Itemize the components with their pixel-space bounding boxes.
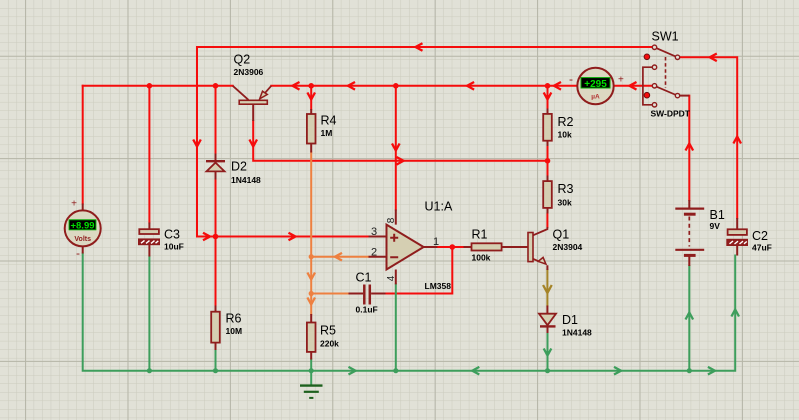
svg-text:Q1: Q1 [553,228,570,242]
wire D2 top branch [215,86,217,154]
node ground rail R5/ground junction [309,368,314,373]
wire green C3 bottom [148,257,150,371]
svg-text:47uF: 47uF [752,243,772,253]
wire net opamp+ horizontal to pin3 [197,236,369,238]
svg-text:10k: 10k [558,130,572,140]
svg-text:Volts: Volts [74,236,91,243]
node C1 left junction [309,291,314,296]
wire net opamp+ / SW1 pole1: vertical+top run [197,47,653,237]
svg-text:10uF: 10uF [164,242,184,252]
svg-text:+295: +295 [584,79,607,90]
transistor Q1 [528,227,583,270]
wire green B1 bottom [688,266,690,371]
node opamp noninverting input junction [213,234,219,240]
resistor R5 [307,314,339,360]
node ground rail C3 junction [147,368,152,373]
wire opamp output to R1 [437,246,463,248]
node R2/R3 divider junction [545,158,551,164]
svg-text:30k: 30k [558,198,572,208]
svg-text:B1: B1 [710,208,725,222]
svg-text:2: 2 [371,246,377,258]
current arrow olive [544,286,552,293]
svg-text:100k: 100k [472,253,491,263]
node R2 top junction [545,83,551,89]
wire opamp pin8 supply drop [395,86,397,210]
svg-text:0.1uF: 0.1uF [356,305,378,315]
node ground rail opamp V- junction [393,368,398,373]
svg-text:9V: 9V [710,221,721,231]
wire node to R3 top [547,161,549,176]
resistor R2 [543,109,573,147]
wire voltmeter drop [82,86,84,204]
wire supply row left segment [83,85,233,87]
svg-text:R3: R3 [558,182,574,196]
svg-text:-: - [76,246,80,260]
wire green ground rail [83,254,736,371]
node opamp V+ branch junction [393,83,399,89]
current arrows red [193,43,741,240]
svg-text:1N4148: 1N4148 [231,175,261,185]
svg-text:Q2: Q2 [234,53,251,67]
wire green D1 bottom [547,333,549,371]
resistor R1 [464,228,529,263]
wire Q2 base down and across to R2/R3 node [253,121,547,161]
svg-text:LM358: LM358 [425,281,452,291]
diode D2 [206,154,261,186]
svg-text:R6: R6 [226,312,242,326]
wire C3 drop [148,86,150,223]
svg-text:C3: C3 [164,228,180,242]
wire orange to opamp pin2 [311,256,368,258]
op-amp U1:A [369,200,453,292]
svg-text:R2: R2 [558,115,574,129]
wire R3 bottom to Q1 collector [546,214,548,228]
wire D2 bottom to node [215,180,217,237]
switch SW1 [643,30,691,119]
svg-text:4: 4 [386,275,397,281]
wire green R5 bottom + ground stub [310,360,312,385]
node ground rail D1 junction [545,368,550,373]
svg-text:1: 1 [433,236,439,248]
svg-text:µA: µA [591,94,600,101]
svg-text:1N4148: 1N4148 [562,328,592,338]
node ground rail B1 junction [687,368,692,373]
svg-text:R1: R1 [472,228,488,242]
svg-text:R4: R4 [321,114,337,128]
svg-text:D2: D2 [231,160,247,174]
wire supply row right segment [271,85,577,87]
node C3 top junction [147,83,153,89]
wire R2 bottom to node [547,146,549,161]
svg-text:R5: R5 [320,324,336,338]
svg-text:SW1: SW1 [652,30,679,44]
svg-text:+: + [618,75,624,86]
svg-text:-: - [569,72,573,86]
voltmeter body [65,199,101,261]
svg-text:+8.99: +8.99 [70,221,94,232]
wire node to R6 [215,237,217,306]
svg-text:10M: 10M [226,326,243,336]
capacitor C2 [727,218,772,256]
transistor Q2 [233,53,272,122]
current arrows orange [307,253,342,305]
wire green opamp pin4 down [395,284,397,370]
wire R4 top lead [310,86,312,109]
svg-text:C1: C1 [356,271,372,285]
wire feedback output down and left to C1 [386,247,453,294]
svg-text:2N3906: 2N3906 [234,67,264,77]
capacitor C1 [349,271,386,315]
resistor R6 [211,306,242,351]
wire SW1 throw1 to C2 column [680,57,738,218]
svg-text:+: + [71,199,77,210]
capacitor C3 [139,223,184,257]
ammeter [569,68,624,104]
svg-text:D1: D1 [562,313,578,327]
wire green R6 bottom [215,350,217,371]
wire R2 top lead [547,86,549,109]
node opamp inverting input junction [309,254,314,259]
current arrows green [349,310,740,375]
node D2 cathode junction [213,83,219,89]
svg-text:C2: C2 [752,229,768,243]
wire meter to SW1 pole2 [614,85,652,87]
svg-text:2N3904: 2N3904 [553,242,583,252]
svg-text:3: 3 [371,226,377,238]
wire orange R4 bottom to R5 column [310,153,312,315]
wire SW1 throw2 to B1 column [688,96,690,200]
resistor R3 [543,176,573,214]
wire orange to C1 left [311,293,348,295]
node opamp output junction [450,244,456,250]
wire olive Q1 emitter to D1 [546,270,548,306]
svg-text:8: 8 [386,217,397,223]
svg-text:U1:A: U1:A [425,200,453,214]
svg-text:1M: 1M [321,128,333,138]
battery B1 [675,200,725,266]
resistor R4 [307,109,337,153]
diode D1 [539,306,592,338]
svg-text:220k: 220k [320,339,339,349]
ground [300,386,323,398]
svg-text:SW-DPDT: SW-DPDT [651,108,691,118]
node R4 top junction [308,83,314,89]
node ground rail R6 junction [213,368,218,373]
